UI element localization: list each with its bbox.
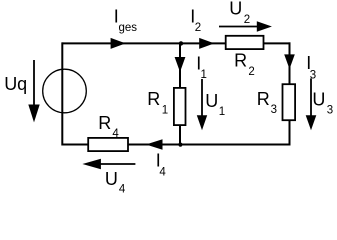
svg-text:R: R (98, 113, 111, 133)
wire right vertical lower (289, 120, 291, 146)
voltage source Uq circle (43, 69, 87, 113)
resistor R4 (88, 138, 128, 151)
wire left vertical (61, 42, 63, 145)
arrow I2 on top wire (199, 38, 214, 49)
arrow Iges on top wire (111, 38, 126, 49)
resistor R1 (174, 88, 186, 125)
svg-text:U: U (205, 91, 218, 111)
arrow Uq beside source (33, 60, 35, 106)
svg-text:R: R (257, 89, 270, 109)
svg-text:Uq: Uq (4, 74, 27, 94)
svg-text:4: 4 (159, 167, 166, 179)
svg-text:3: 3 (310, 69, 316, 81)
arrow U3 beside R3 (310, 78, 312, 116)
wire top from R2 to right corner (264, 42, 291, 44)
svg-text:U: U (105, 169, 118, 189)
svg-text:2: 2 (195, 22, 201, 34)
svg-text:1: 1 (162, 104, 168, 116)
wire top from left corner to R2 (62, 42, 225, 44)
arrow I4 on bottom wire (146, 139, 163, 150)
svg-text:R: R (147, 89, 160, 109)
wire right vertical upper (289, 42, 291, 84)
svg-text:3: 3 (327, 105, 333, 117)
arrow I1 on R1 branch (175, 57, 186, 72)
svg-text:U: U (229, 0, 242, 18)
node junction bottom (R1 to bottom wire) (178, 143, 182, 147)
wire R1 branch upper (179, 43, 181, 88)
arrow U1 beside R1 (201, 79, 203, 117)
node junction top (I2 branch) (179, 41, 183, 45)
arrow U4 below R4 (98, 163, 135, 165)
svg-text:2: 2 (244, 14, 250, 26)
svg-text:1: 1 (201, 69, 207, 81)
svg-text:3: 3 (271, 104, 277, 116)
svg-text:R: R (234, 51, 247, 71)
arrow U2 above R2 (219, 26, 259, 28)
svg-text:ges: ges (119, 22, 138, 34)
arrow I3 on right branch (284, 54, 295, 69)
svg-text:U: U (312, 90, 325, 110)
svg-text:2: 2 (248, 66, 254, 78)
svg-text:4: 4 (119, 184, 126, 195)
wire R1 branch lower (179, 125, 181, 145)
svg-text:1: 1 (219, 106, 225, 118)
resistor R2 (226, 36, 264, 49)
resistor R3 (283, 84, 296, 120)
wire bottom (62, 144, 290, 146)
svg-text:4: 4 (112, 128, 119, 140)
